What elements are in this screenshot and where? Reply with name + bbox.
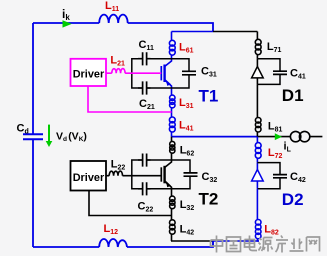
transistor T2 (IGBT, black) — [160, 167, 162, 181]
wire: T2 collector (black) — [165, 160, 172, 168]
wire: T1 collector (blue) — [165, 59, 172, 67]
wire: driver 1 return (magenta) — [88, 86, 172, 112]
svg-text:Driver: Driver — [73, 68, 105, 80]
capacitor C31 — [182, 71, 196, 75]
inductor L12 — [99, 239, 127, 247]
current arrow ik (green) — [63, 20, 72, 27]
glyph 国 — [227, 237, 241, 252]
inductor L21 (magenta) — [112, 69, 125, 74]
diode D2 (blue) — [252, 170, 264, 182]
capacitor C41 with parallel loop (black) — [257, 59, 280, 85]
current arrow iL (green) — [275, 133, 282, 140]
glyph 源 — [259, 238, 273, 252]
wire: mid rail to load (black) — [257, 136, 322, 138]
wire: left vertical bus (blue) — [32, 23, 34, 247]
svg-text:T1: T1 — [199, 87, 219, 106]
wire: top DC bus (blue) — [33, 23, 213, 32]
capacitor Cd (blue plates) — [23, 134, 43, 139]
wire: bottom rail T2 side (black) — [171, 240, 213, 242]
inductor L62 (black) — [171, 137, 173, 160]
wire: bottom rail D2 side (blue) — [213, 241, 259, 247]
inductor L32 (black) — [171, 196, 173, 216]
inductor L61 (blue) — [171, 32, 173, 59]
inductor L82 (blue) — [257, 189, 259, 241]
capacitor C32 — [184, 173, 198, 176]
wire: top rail T1 side (blue) — [172, 31, 214, 33]
load / source symbol (two circles) — [290, 131, 300, 141]
gate capacitor network T1: box (black) — [132, 59, 189, 88]
glyph 中 — [211, 236, 223, 253]
driver 1 box (magenta) — [71, 59, 107, 86]
svg-text:D1: D1 — [282, 86, 304, 105]
diode D1 (black) — [256, 59, 258, 67]
capacitor C12 — [138, 154, 151, 167]
inductor L71 (black) — [256, 32, 258, 59]
wire: top rail D1 side (black) — [213, 31, 257, 33]
capacitor C42 with parallel loop (black) — [257, 163, 280, 189]
transistor T1 (IGBT, blue) — [160, 66, 162, 80]
glyph 网 — [307, 237, 320, 252]
capacitor C22 — [138, 182, 151, 195]
wire: mid rail (blue) — [172, 136, 258, 138]
wire: bottom DC bus (blue) — [33, 241, 213, 247]
driver 2 box (black) — [71, 161, 107, 191]
wire: gate lead T2 (black) — [106, 175, 161, 177]
inductor L31 (blue) — [171, 95, 173, 112]
inductor L41 (blue) — [171, 112, 173, 137]
inductor L72 (blue) — [256, 137, 258, 163]
glyph 产 — [276, 236, 289, 253]
inductor L81 (black) — [256, 84, 258, 136]
voltage arrow Vd (green) — [48, 125, 50, 142]
inductor L42 (black) — [171, 216, 173, 242]
inductor L11 — [99, 15, 128, 23]
gate capacitor network T2: box (black) — [132, 160, 190, 189]
glyph 电 — [245, 236, 258, 251]
wire: gate lead T1 (magenta) — [106, 72, 161, 74]
svg-text:T2: T2 — [199, 190, 219, 209]
wire: driver 2 return (black) — [89, 191, 172, 216]
glyph 业 — [290, 239, 304, 252]
inductor L22 (black) — [109, 171, 122, 176]
svg-text:D2: D2 — [282, 190, 304, 209]
svg-text:Driver: Driver — [73, 172, 105, 184]
watermark: 中国电源产业网 (drawn glyphs, gray) — [211, 236, 320, 253]
capacitor C11 — [138, 52, 151, 65]
capacitor C21 — [138, 81, 151, 94]
